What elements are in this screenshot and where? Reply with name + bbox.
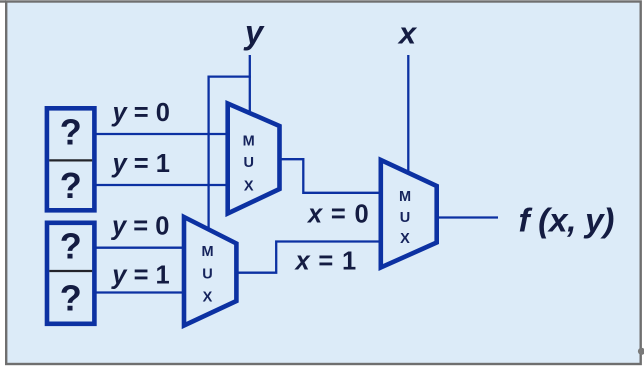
svg-text:y = 1: y = 1 [111,150,170,178]
wire: y=1 input (box B2 cell 2 to U2) [96,291,186,293]
box B1 (top "?" constant cells) [47,108,95,210]
svg-text:U: U [243,155,253,171]
wire: x input vertical into U3 [407,55,409,176]
svg-text:M: M [243,134,255,150]
svg-text:f (x, y): f (x, y) [519,203,615,240]
wire: y branch horizontal [209,75,251,77]
svg-text:?: ? [60,278,82,319]
wire: U2 output to U3 x=1 input [238,242,380,273]
svg-text:X: X [400,231,410,247]
svg-text:M: M [399,189,411,205]
svg-text:x = 0: x = 0 [306,201,369,229]
wire: y=1 input (box B1 cell 2 to U1) [96,184,229,186]
wire: y input vertical into U1 [249,55,251,116]
svg-text:y = 0: y = 0 [111,99,170,127]
svg-text:y = 0: y = 0 [110,213,169,241]
svg-text:y: y [243,14,265,51]
mux U2 (bottom) [184,217,236,326]
svg-text:x = 1: x = 1 [294,248,357,276]
svg-text:X: X [203,290,213,306]
svg-text:y = 1: y = 1 [110,262,169,290]
svg-text:X: X [244,179,254,195]
wire: y=0 input (box B1 cell 1 to U1) [96,133,229,135]
mux U1 (top) [228,104,280,214]
wire: U3 output f(x,y) [438,216,498,218]
svg-text:?: ? [60,112,82,153]
resize handle nub on right frame edge [638,348,644,355]
svg-text:x: x [397,16,418,51]
wire: U1 output to U3 x=0 input [281,159,380,193]
wire: y branch vertical into U2 [207,76,209,233]
svg-text:U: U [400,210,410,226]
mux U3 (right/output) [381,160,437,268]
box B2 (bottom "?" constant cells) [47,223,94,324]
svg-text:?: ? [60,165,82,206]
svg-text:?: ? [60,226,82,267]
svg-text:U: U [202,266,212,282]
wire: y=0 input (box B2 cell 1 to U2) [96,247,186,249]
svg-text:M: M [201,244,213,260]
